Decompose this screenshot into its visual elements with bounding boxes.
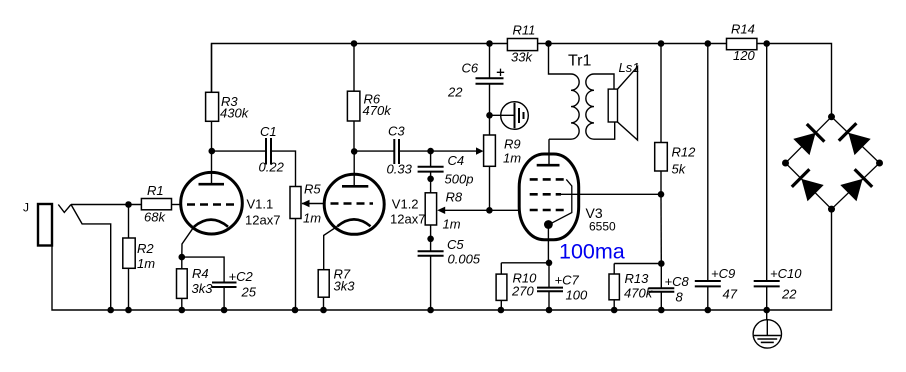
svg-text:22: 22 bbox=[781, 287, 797, 302]
transformer Tr1 primary winding bbox=[571, 74, 579, 139]
node input R1/R2 bbox=[125, 201, 132, 208]
node rail C7 bbox=[546, 307, 553, 314]
node rail R5 bbox=[292, 307, 299, 314]
svg-text:120: 120 bbox=[733, 48, 755, 63]
V1.1 cathode bbox=[194, 220, 228, 227]
R5 wiper arrow bbox=[302, 203, 325, 205]
node R8 wiper/R9/V3 grid bbox=[486, 207, 493, 214]
jack J tip contact bbox=[58, 205, 71, 213]
resistor R10 bbox=[496, 263, 507, 310]
wire top rail B+ right segment bbox=[757, 44, 832, 117]
resistor R12 bbox=[655, 44, 668, 195]
capacitor C4 bbox=[418, 151, 444, 179]
node top rail at C9 bbox=[705, 40, 712, 47]
node top rail at R6 bbox=[351, 40, 358, 47]
node rail C8 bbox=[658, 307, 665, 314]
C6 polarity plus bbox=[497, 69, 504, 76]
V1.2 plate bbox=[342, 185, 368, 188]
resistor R3 bbox=[206, 44, 219, 152]
svg-text:68k: 68k bbox=[144, 210, 166, 225]
diode D2 top-right bbox=[839, 123, 871, 155]
node top rail at R12 bbox=[658, 40, 665, 47]
svg-text:3k3: 3k3 bbox=[334, 279, 356, 294]
jack J switch contact wire to ground bbox=[71, 205, 111, 311]
speaker Ls1 bbox=[608, 67, 637, 140]
node R6/C3/plate bbox=[351, 148, 358, 155]
svg-text:C5: C5 bbox=[447, 237, 464, 252]
V1.2 grid bbox=[331, 202, 374, 205]
node bridge bottom bbox=[828, 206, 835, 213]
resistor R11 bbox=[507, 39, 537, 51]
svg-text:1m: 1m bbox=[503, 151, 521, 166]
node R8/C5 bbox=[427, 236, 434, 243]
svg-text:8: 8 bbox=[676, 290, 684, 305]
svg-text:270: 270 bbox=[511, 284, 534, 299]
resistor R13 bbox=[609, 264, 619, 311]
svg-text:Tr1: Tr1 bbox=[568, 53, 592, 70]
R8 wiper arrow bbox=[444, 209, 489, 211]
node rail R7 bbox=[320, 307, 327, 314]
resistor R7 bbox=[318, 270, 329, 310]
wire V3 screen to R12 bbox=[561, 193, 661, 195]
node rail C10/ground bbox=[763, 307, 770, 314]
R9 wiper arrow wire bbox=[431, 150, 477, 152]
svg-text:33k: 33k bbox=[511, 50, 533, 65]
V3 plate bbox=[537, 164, 560, 167]
wire jack tip to R1/R2 node bbox=[71, 204, 141, 206]
svg-text:J: J bbox=[23, 201, 29, 215]
node rail C2 bbox=[221, 307, 228, 314]
V3 grid row 1 bbox=[530, 178, 567, 181]
node rail R10 bbox=[498, 307, 505, 314]
V3 cathode dot bbox=[544, 220, 553, 229]
diode D1 top-left bbox=[793, 124, 824, 155]
potentiometer R8 bbox=[425, 179, 436, 239]
V1.2 plate wire bbox=[353, 151, 355, 186]
svg-text:R12: R12 bbox=[672, 145, 697, 160]
svg-text:R14: R14 bbox=[731, 22, 755, 37]
wire top rail B+ mid segment bbox=[538, 43, 727, 45]
capacitor C7 bbox=[537, 263, 563, 310]
wire bottom ground rail bbox=[52, 209, 832, 310]
wire top rail B+ left segment bbox=[212, 44, 508, 93]
svg-text:1m: 1m bbox=[303, 211, 321, 226]
capacitor C9 bbox=[695, 44, 721, 311]
svg-text:+C8: +C8 bbox=[665, 274, 690, 289]
wire cathode node to R10 bbox=[501, 262, 549, 264]
node V3 cathode/R10/C7 bbox=[546, 260, 553, 267]
svg-text:0.22: 0.22 bbox=[259, 160, 285, 175]
node V1.1 cathode/R4/C2 bbox=[179, 254, 186, 261]
svg-text:V1.2: V1.2 bbox=[392, 197, 419, 212]
svg-text:1m: 1m bbox=[137, 256, 155, 271]
V3 grid row 2 screen bbox=[530, 193, 561, 196]
capacitor C6 bbox=[476, 44, 504, 116]
svg-text:C4: C4 bbox=[448, 153, 465, 168]
svg-text:+C7: +C7 bbox=[555, 273, 580, 288]
wire V1.1 cathode to R4 node bbox=[182, 227, 194, 257]
V3 beam plate tie to cathode bbox=[549, 179, 572, 224]
capacitor C3 bbox=[354, 139, 430, 164]
node R13/C8 bbox=[658, 260, 665, 267]
svg-text:R8: R8 bbox=[446, 190, 463, 205]
resistor R6 bbox=[347, 44, 360, 152]
V3 grid row 3 bbox=[530, 209, 565, 212]
node rail R4 bbox=[179, 307, 186, 314]
V1.1 grid bbox=[187, 203, 237, 206]
node C3/C4/R9 wiper bbox=[427, 148, 434, 155]
svg-text:V1.1: V1.1 bbox=[247, 197, 274, 212]
svg-text:C6: C6 bbox=[462, 61, 479, 76]
svg-text:6550: 6550 bbox=[589, 220, 616, 234]
diode D3 bottom-left bbox=[792, 169, 824, 201]
op-amp V1.1 triode envelope bbox=[181, 172, 243, 234]
node rail R2 bbox=[125, 307, 132, 314]
V1.1 plate wire bbox=[211, 151, 213, 184]
bridge rectifier diamond wires bbox=[786, 117, 880, 209]
node top rail at C10 bbox=[763, 40, 770, 47]
svg-text:22: 22 bbox=[447, 85, 463, 100]
svg-text:+C10: +C10 bbox=[770, 266, 802, 281]
svg-text:3k3: 3k3 bbox=[192, 281, 214, 296]
svg-text:100ma: 100ma bbox=[559, 240, 625, 264]
svg-text:R9: R9 bbox=[504, 137, 521, 152]
svg-text:C1: C1 bbox=[260, 124, 277, 139]
svg-text:R11: R11 bbox=[513, 23, 536, 38]
transformer Tr1 primary wire from B+ bbox=[549, 44, 572, 75]
svg-text:25: 25 bbox=[241, 285, 257, 300]
svg-text:1m: 1m bbox=[443, 217, 461, 232]
wire V3 cathode bbox=[547, 225, 549, 263]
node screen/R12 bbox=[658, 191, 665, 198]
wire Tr1 primary to V3 plate bbox=[549, 138, 571, 140]
potentiometer R5 bbox=[290, 187, 301, 311]
svg-text:47: 47 bbox=[723, 287, 738, 302]
capacitor C1 bbox=[212, 138, 296, 187]
svg-text:R4: R4 bbox=[192, 266, 209, 281]
svg-text:430k: 430k bbox=[220, 106, 250, 121]
capacitor C8 bbox=[648, 264, 674, 311]
node C6/R9/grid cap bbox=[486, 112, 493, 119]
capacitor C10 bbox=[754, 44, 780, 311]
grid cap terminal symbol bbox=[490, 102, 529, 130]
svg-text:+C9: +C9 bbox=[711, 266, 735, 281]
op-amp V1.2 triode envelope bbox=[324, 174, 384, 234]
wire Tr1 secondary bottom to speaker bbox=[594, 122, 615, 139]
diode D4 bottom-right bbox=[840, 169, 872, 201]
wire V3 grid bbox=[489, 209, 519, 211]
resistor R2 bbox=[123, 205, 135, 311]
svg-text:0.005: 0.005 bbox=[448, 252, 481, 267]
svg-text:0.33: 0.33 bbox=[387, 162, 413, 177]
svg-text:12ax7: 12ax7 bbox=[390, 212, 425, 227]
resistor R4 bbox=[177, 257, 188, 310]
svg-text:R2: R2 bbox=[137, 241, 154, 256]
jack J body bbox=[38, 204, 52, 246]
transistor V3 power tube envelope bbox=[519, 154, 579, 240]
node rail C9 bbox=[705, 307, 712, 314]
node top rail at C6 bbox=[486, 40, 493, 47]
svg-text:12ax7: 12ax7 bbox=[245, 213, 280, 228]
svg-text:5k: 5k bbox=[672, 162, 687, 177]
svg-text:R13: R13 bbox=[625, 271, 650, 286]
V1.1 plate bbox=[199, 183, 225, 186]
wire node to R13 bbox=[614, 263, 661, 265]
wire Tr1 secondary top to speaker bbox=[594, 74, 614, 89]
resistor R1 bbox=[141, 199, 182, 210]
svg-text:C3: C3 bbox=[388, 124, 405, 139]
svg-text:Ls1: Ls1 bbox=[619, 60, 640, 75]
wire V1.2 cathode to R7 bbox=[324, 226, 338, 269]
wire R12 node down to R13/C8 node bbox=[660, 194, 662, 263]
V1.2 cathode bbox=[337, 219, 370, 226]
svg-text:R5: R5 bbox=[304, 182, 321, 197]
node top rail at Tr1 bbox=[545, 40, 552, 47]
node bridge left bbox=[782, 160, 789, 167]
node rail R13 bbox=[611, 307, 618, 314]
svg-text:R1: R1 bbox=[147, 183, 164, 198]
node bridge right bbox=[876, 160, 883, 167]
V3 plate wire bbox=[548, 139, 550, 165]
capacitor C2 bbox=[182, 257, 237, 310]
resistor R14 bbox=[727, 38, 757, 49]
node bridge top bbox=[828, 113, 835, 120]
node rail jack sleeve bbox=[107, 307, 114, 314]
transformer Tr1 secondary winding bbox=[586, 74, 594, 139]
svg-text:+C2: +C2 bbox=[229, 269, 254, 284]
node R3/C1/plate bbox=[209, 148, 216, 155]
capacitor C5 bbox=[418, 239, 444, 310]
potentiometer R9 bbox=[484, 115, 496, 210]
ground symbol bbox=[753, 310, 781, 348]
node rail C5 bbox=[427, 307, 434, 314]
svg-text:500p: 500p bbox=[445, 172, 474, 187]
svg-text:100: 100 bbox=[566, 288, 588, 303]
svg-text:470k: 470k bbox=[363, 103, 393, 118]
node C4/R8 bbox=[427, 176, 434, 183]
